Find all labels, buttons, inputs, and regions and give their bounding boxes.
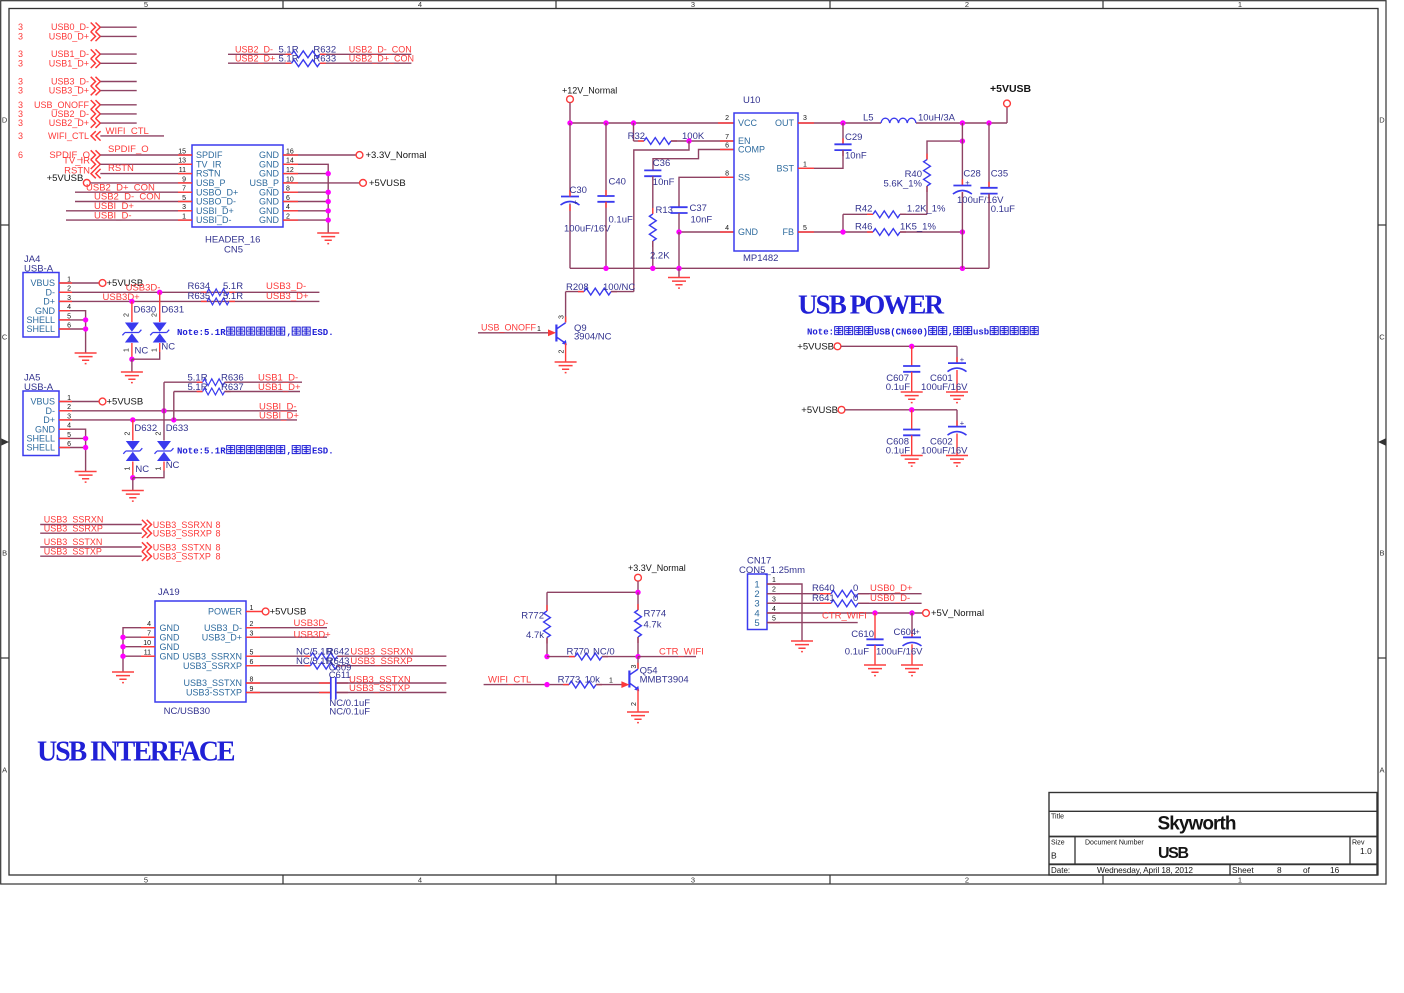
resistor R40 5.6K_1% [883, 138, 965, 214]
svg-text:USB(CN600): USB(CN600) [874, 328, 928, 338]
svg-text:4: 4 [725, 225, 729, 232]
ground below C607 [901, 392, 923, 403]
svg-text:USB3_SSTXN: USB3_SSTXN [183, 678, 242, 688]
ground below C602 [946, 456, 968, 467]
svg-text:8: 8 [725, 170, 729, 177]
svg-text:USB: USB [1158, 845, 1189, 862]
svg-text:Note:: Note: [807, 328, 834, 338]
svg-text:USB1_D+: USB1_D+ [49, 58, 89, 68]
svg-text:C: C [2, 333, 8, 342]
svg-text:1.0: 1.0 [1360, 846, 1372, 856]
svg-text:+: + [960, 418, 965, 427]
svg-text:POWER: POWER [208, 607, 243, 617]
wire CN5 GND pins to ground [283, 164, 331, 233]
svg-text:8: 8 [216, 552, 221, 562]
svg-text:,: , [948, 328, 953, 338]
ground below C608 [901, 456, 923, 467]
svg-text:CTR_WIFI: CTR_WIFI [822, 610, 867, 621]
svg-text:VCC: VCC [738, 118, 758, 128]
resistor R13 2.2K [649, 176, 673, 268]
off-page connector USB3_SSRXN (sheet 8) [40, 515, 220, 530]
svg-text:7: 7 [725, 134, 729, 141]
off-page connector TV_IR, wire to CN5 pin 13 [63, 156, 192, 169]
svg-text:,: , [287, 328, 292, 338]
transistor Q9 3904/NC [556, 292, 611, 362]
svg-text:Title: Title [1051, 814, 1064, 821]
svg-text:+5VUSB: +5VUSB [270, 607, 307, 618]
svg-text:2: 2 [631, 702, 638, 706]
resistor R634 5.1R [188, 281, 307, 296]
power +5VUSB to CN5 pin 9 [47, 173, 192, 186]
svg-text:NC/0: NC/0 [593, 646, 615, 657]
svg-text:USB3_SSRXN: USB3_SSRXN [182, 651, 242, 661]
ground below Q9 [555, 362, 577, 373]
svg-text:USB3_SSRXP: USB3_SSRXP [153, 529, 212, 539]
wire U10 OUT pin 3 to +5VUSB via L5 [798, 83, 1032, 126]
svg-text:C: C [1379, 333, 1385, 342]
svg-text:MP1482: MP1482 [743, 253, 778, 264]
svg-text:USB0_D+: USB0_D+ [49, 31, 89, 41]
svg-text:B: B [2, 549, 7, 558]
svg-text:Document Number: Document Number [1085, 839, 1144, 846]
capacitor C601 100uF/16V [921, 346, 968, 393]
svg-text:10uH/3A: 10uH/3A [918, 113, 956, 124]
ground below D630/D631 [121, 359, 143, 382]
resistor R636 5.1R [164, 373, 302, 386]
capacitor C37 10nF [670, 203, 712, 232]
off-page connector SPDIF_O (sheet 6), wire to CN5 pin 15 [18, 144, 192, 161]
svg-text:R32: R32 [628, 131, 645, 142]
svg-text:R774: R774 [644, 608, 667, 619]
net USB2_D+_CON to CN5 pin 7 [75, 182, 192, 193]
svg-text:4.7k: 4.7k [644, 620, 662, 631]
svg-text:C610: C610 [851, 629, 874, 640]
off-page connector USB1_D+ (sheet 3) [18, 58, 137, 68]
ground below C610 [864, 665, 886, 676]
ESD diode D631 [132, 292, 184, 359]
wire JA4 D- (net USB3D-) [59, 282, 319, 295]
net USB_ONOFF to Q9 base [478, 323, 556, 337]
svg-text:USB3_SSRXP: USB3_SSRXP [44, 523, 103, 533]
note: 5.1R resistor close to terminal, reduce ESD (JA5) [177, 446, 334, 457]
svg-text:GND: GND [160, 623, 181, 633]
svg-text:+5VUSB: +5VUSB [107, 396, 144, 407]
svg-text:R633: R633 [313, 54, 336, 65]
svg-text:NC/USB30: NC/USB30 [164, 706, 210, 717]
svg-text:D632: D632 [134, 423, 157, 434]
svg-text:USB3_SSRXP: USB3_SSRXP [350, 656, 412, 667]
ESD diode D632 [123, 423, 157, 480]
svg-text:R13: R13 [656, 205, 673, 216]
wire JA19 GND pins to ground [120, 628, 155, 672]
svg-text:NC/0.1uF: NC/0.1uF [329, 706, 370, 717]
svg-text:+5VUSB: +5VUSB [47, 173, 84, 184]
svg-text:5: 5 [803, 225, 807, 232]
svg-text:2: 2 [124, 313, 131, 317]
svg-text:10nF: 10nF [845, 150, 867, 161]
svg-text:D631: D631 [161, 305, 184, 316]
wire JA4 D+ (net USB3D+) [59, 292, 319, 304]
svg-text:4: 4 [418, 0, 422, 9]
wire U10 COMP pin 6 to C36 [653, 150, 734, 171]
svg-text:NC: NC [135, 464, 149, 475]
svg-text:3: 3 [18, 86, 23, 96]
svg-text:5.1R: 5.1R [279, 54, 299, 65]
svg-text:3904/NC: 3904/NC [574, 332, 612, 343]
svg-text:1: 1 [803, 161, 807, 168]
net USB2_D-_CON to CN5 pin 5 [75, 192, 192, 203]
svg-text:USB3_D+: USB3_D+ [202, 632, 242, 642]
svg-text:USB3_D-: USB3_D- [204, 623, 242, 633]
svg-text:R637: R637 [221, 382, 244, 393]
svg-text:MMBT3904: MMBT3904 [640, 675, 689, 686]
off-page connector USB1_D- (sheet 3) [18, 49, 137, 59]
off-page connector USB2_D+ (sheet 3) [18, 118, 137, 128]
title block [1049, 793, 1377, 876]
svg-text:2: 2 [124, 431, 131, 435]
ground below Q54 [627, 712, 649, 723]
off-page connector USB0_D- (sheet 3) [18, 22, 137, 32]
off-page connector WIFI_CTL (sheet 3) [18, 126, 164, 141]
off-page connector RSTN, wire to CN5 pin 11 [64, 163, 192, 178]
svg-text:1K5_1%: 1K5_1% [900, 221, 936, 232]
svg-text:100K: 100K [682, 131, 705, 142]
svg-text:Sheet: Sheet [1232, 865, 1254, 875]
capacitor C607 0.1uF [886, 346, 921, 393]
svg-text:3: 3 [691, 876, 695, 885]
off-page connector USB3_SSTXP (sheet 8) [40, 546, 220, 561]
svg-text:C30: C30 [570, 185, 587, 196]
wire JA5 GND/SHELL to ground [59, 429, 88, 471]
svg-text:4: 4 [772, 606, 776, 613]
svg-text:+3.3V_Normal: +3.3V_Normal [366, 150, 427, 161]
svg-text:3: 3 [18, 31, 23, 41]
capacitor C36 10nF [644, 158, 674, 188]
svg-text:Skyworth: Skyworth [1158, 814, 1237, 835]
svg-text:A: A [2, 766, 7, 775]
wire JA4 pin1 VBUS to +5VUSB [59, 278, 143, 289]
svg-text:2: 2 [559, 349, 566, 353]
wire EN node to R208 [634, 141, 689, 292]
svg-text:C40: C40 [609, 176, 626, 187]
capacitor C28 100uF/16V [953, 123, 1004, 268]
resistor R42 1.2K_1% [843, 204, 946, 232]
svg-text:SHELL: SHELL [26, 443, 55, 453]
wire U10 GND pin 4 [676, 229, 734, 268]
svg-text:3: 3 [631, 664, 638, 668]
wire JA4 GND/SHELL to ground [59, 311, 88, 353]
wire JA5 pin1 VBUS to +5VUSB [59, 396, 143, 407]
capacitor C35 0.1uF [980, 123, 1015, 268]
wire JA19 pin1 POWER to +5VUSB [246, 607, 306, 618]
resistor R208 100/NC [566, 282, 636, 295]
svg-text:USB3_D+: USB3_D+ [49, 86, 89, 96]
svg-text:1: 1 [609, 677, 613, 684]
svg-text:SPDIF_O: SPDIF_O [108, 144, 149, 155]
svg-text:Note:5.1R: Note:5.1R [177, 447, 226, 457]
resistor R633 5.1R [228, 54, 414, 67]
svg-text:USB3-SSTXP: USB3-SSTXP [186, 688, 242, 698]
svg-text:of: of [1303, 865, 1311, 875]
svg-text:R208: R208 [566, 282, 589, 293]
svg-text:B: B [1051, 851, 1057, 861]
svg-text:+: + [573, 198, 578, 207]
capacitor C611 NC/0.1uF [246, 670, 446, 717]
svg-text:USB3_SSTXP: USB3_SSTXP [153, 552, 211, 562]
svg-text:1: 1 [772, 577, 776, 584]
power +3.3V_Normal [628, 563, 686, 592]
svg-text:USB0_D-: USB0_D- [870, 593, 910, 604]
svg-text:0.1uF: 0.1uF [845, 647, 869, 658]
ground below CN17 pin1 [791, 641, 813, 652]
svg-text:USB2_D+: USB2_D+ [235, 54, 275, 64]
connector CN5 HEADER_16 [178, 145, 294, 256]
svg-text:2: 2 [965, 876, 969, 885]
svg-text:10k: 10k [585, 674, 601, 685]
svg-text:1: 1 [1238, 876, 1242, 885]
inductor L5 10uH/3A [863, 113, 956, 124]
off-page connector USB_ONOFF (sheet 3) [18, 100, 137, 110]
svg-text:C29: C29 [845, 132, 862, 143]
svg-text:SS: SS [738, 172, 750, 182]
svg-text:3: 3 [18, 58, 23, 68]
svg-text:+5V_Normal: +5V_Normal [931, 608, 984, 619]
resistor R640 0 (net USB0_D+) [767, 583, 922, 597]
svg-text:USB3D+: USB3D+ [294, 629, 332, 640]
svg-text:5: 5 [754, 618, 759, 629]
svg-text:C28: C28 [963, 168, 980, 179]
svg-text:5.1R: 5.1R [188, 382, 208, 393]
svg-text:2: 2 [725, 115, 729, 122]
svg-text:A: A [1379, 766, 1384, 775]
svg-text:16: 16 [1330, 865, 1340, 875]
svg-text:CN5: CN5 [224, 245, 243, 256]
capacitor C30 100uF/16V [561, 123, 612, 268]
ground below C604 [901, 665, 923, 676]
ESD diode D630 [122, 301, 156, 362]
svg-text:Date:: Date: [1051, 866, 1070, 875]
svg-text:+5VUSB: +5VUSB [990, 83, 1032, 95]
ground below C601 [946, 392, 968, 403]
resistor R46 1K5_1% FB divider [798, 221, 965, 235]
svg-text:3: 3 [18, 118, 23, 128]
ground below D632/D633 [122, 478, 144, 501]
note: 5.1R resistor close to terminal, reduce ESD (JA4) [177, 327, 334, 338]
svg-text:+: + [965, 178, 970, 187]
svg-text:5: 5 [144, 876, 148, 885]
off-page connector USB2_D- (sheet 3) [18, 109, 137, 119]
resistor R637 5.1R [174, 382, 301, 395]
svg-text:2: 2 [151, 313, 158, 317]
svg-text:USBI_D+: USBI_D+ [259, 411, 299, 422]
svg-text:5: 5 [772, 616, 776, 623]
power +12V_Normal [562, 86, 617, 123]
svg-text:1: 1 [151, 348, 158, 352]
svg-text:+: + [960, 355, 965, 364]
svg-text:2: 2 [965, 0, 969, 9]
svg-text:FB: FB [782, 227, 794, 237]
svg-text:BST: BST [776, 163, 794, 173]
connector JA4 USB-A [23, 254, 71, 337]
svg-text:6: 6 [18, 150, 23, 160]
svg-text:1: 1 [537, 326, 541, 333]
connector JA5 USB-A [23, 373, 71, 456]
svg-text:1: 1 [124, 348, 131, 352]
svg-text:10nF: 10nF [653, 177, 675, 188]
capacitor C602 100uF/16V [921, 410, 968, 457]
power +5VUSB rail 1 [797, 342, 957, 353]
transistor Q54 MMBT3904 [629, 657, 688, 712]
resistor R770 NC/0 [544, 646, 640, 660]
svg-text:USBI_D-: USBI_D- [196, 215, 232, 225]
svg-text:Wednesday, April 18, 2012: Wednesday, April 18, 2012 [1097, 865, 1193, 875]
wire JA5 D+ (net USBI_D+) [59, 392, 299, 441]
svg-text:USB_ONOFF: USB_ONOFF [481, 323, 537, 333]
wire CN5 pin 10 USB_P to +5VUSB [283, 178, 406, 189]
wire CN17 pin4 to +5V_Normal [767, 608, 984, 619]
resistor R635 5.1R [188, 291, 309, 305]
svg-text:USB3D-: USB3D- [294, 618, 329, 629]
svg-text:USB1_D+: USB1_D+ [258, 382, 301, 393]
svg-text:GND: GND [160, 642, 181, 652]
svg-text:RSTN: RSTN [108, 163, 134, 174]
capacitor C609 NC/0.1uF [246, 662, 446, 709]
svg-text:USB3_D+: USB3_D+ [266, 291, 309, 302]
svg-text:100/NC: 100/NC [603, 282, 635, 293]
wire 3.3V top rail [547, 590, 641, 595]
svg-text:6: 6 [725, 143, 729, 150]
ground below JA5 shell [75, 472, 97, 483]
svg-text:1: 1 [124, 466, 131, 470]
svg-text:B: B [1379, 549, 1384, 558]
svg-text:D: D [2, 116, 8, 125]
svg-text:C35: C35 [991, 168, 1008, 179]
svg-text:3: 3 [559, 315, 566, 319]
svg-text:C604: C604 [894, 627, 917, 638]
svg-text:R42: R42 [855, 204, 872, 215]
svg-text:5.1R: 5.1R [223, 291, 243, 302]
connector JA19 NC/USB30 [143, 587, 253, 717]
wire JA5 D- (net USBI_D-) [59, 382, 297, 440]
capacitor C608 0.1uF [886, 410, 921, 457]
svg-text:C611: C611 [329, 670, 351, 681]
svg-text:,: , [287, 447, 292, 457]
capacitor C29 10nF [798, 123, 867, 168]
svg-text:+12V_Normal: +12V_Normal [562, 86, 617, 96]
svg-text:5: 5 [144, 0, 148, 9]
svg-text:GND: GND [160, 632, 181, 642]
svg-text:U10: U10 [743, 95, 760, 106]
wire bottom ground rail [570, 266, 989, 271]
svg-text:+5VUSB: +5VUSB [801, 405, 838, 416]
svg-text:4.7k: 4.7k [526, 630, 544, 641]
resistor R641 0 (net USB0_D-) [767, 593, 922, 607]
svg-text:JA19: JA19 [158, 587, 180, 598]
svg-text:D633: D633 [166, 423, 189, 434]
svg-text:ESD.: ESD. [312, 447, 334, 457]
svg-text:GND: GND [160, 651, 181, 661]
svg-text:NC: NC [166, 460, 180, 471]
power +5VUSB rail 2 [801, 405, 957, 416]
off-page connector USB3_SSTXN (sheet 8) [40, 537, 220, 552]
svg-text:1: 1 [1238, 0, 1242, 9]
resistor R772 4.7k [521, 592, 550, 656]
svg-text:GND: GND [738, 227, 759, 237]
resistor R632 5.1R [228, 45, 412, 58]
net WIFI_CTL to Q54 base via R773 [484, 674, 630, 688]
svg-text:Note:5.1R: Note:5.1R [177, 328, 226, 338]
svg-text:10nF: 10nF [691, 214, 713, 225]
svg-text:USB POWER: USB POWER [798, 289, 945, 319]
svg-text:R46: R46 [855, 221, 872, 232]
wire CN17 pin1 to ground [767, 584, 802, 641]
svg-text:USB INTERFACE: USB INTERFACE [37, 737, 236, 768]
svg-text:usb: usb [973, 328, 989, 338]
svg-text:C36: C36 [653, 158, 670, 169]
svg-text:8: 8 [216, 529, 221, 539]
svg-text:1: 1 [156, 466, 163, 470]
svg-text:100uF/16V: 100uF/16V [876, 647, 923, 658]
svg-text:R773: R773 [558, 674, 581, 685]
wire JA19 pin2 net USB3D- [246, 618, 328, 629]
svg-text:R772: R772 [521, 610, 544, 621]
svg-text:2: 2 [156, 431, 163, 435]
op-amp/regulator U10 MP1482 [725, 95, 807, 264]
svg-text:L5: L5 [863, 113, 874, 124]
ground below JA4 shell [75, 353, 97, 364]
svg-text:3: 3 [691, 0, 695, 9]
svg-text:Size: Size [1051, 839, 1065, 846]
svg-text:USB2_D+: USB2_D+ [49, 118, 89, 128]
svg-text:SHELL: SHELL [26, 324, 55, 334]
ground below C37/GND rail [668, 268, 690, 288]
svg-text:R641: R641 [812, 593, 835, 604]
svg-text:COMP: COMP [738, 145, 765, 155]
svg-text:NC: NC [135, 346, 149, 357]
svg-text:8: 8 [1277, 865, 1282, 875]
capacitor C40 0.1uF [597, 123, 633, 268]
svg-text:2: 2 [772, 587, 776, 594]
svg-text:4: 4 [418, 876, 422, 885]
svg-text:WIFI_CTL: WIFI_CTL [48, 131, 89, 141]
capacitor C604 100uF/16V [876, 613, 923, 665]
resistor R643 NC/5.1R [246, 656, 446, 669]
ground left of JA19 [112, 672, 134, 683]
svg-text:+3.3V_Normal: +3.3V_Normal [628, 563, 686, 573]
net USBI_D+ to CN5 pin 3 [66, 201, 192, 212]
wire CN17 pin5 net CTR_WIFI [767, 610, 867, 622]
ground below CN5 [317, 233, 339, 244]
off-page connector USB3_D- (sheet 3) [18, 77, 137, 87]
resistor R32 100K [628, 123, 734, 144]
wire CN5 pin 16 to +3.3V_Normal [283, 150, 427, 161]
svg-text:+5VUSB: +5VUSB [369, 178, 406, 189]
resistor R774 4.7k [635, 592, 667, 656]
net CTR_WIFI [638, 646, 704, 657]
off-page connector USB3_SSRXP (sheet 8) [40, 523, 220, 538]
off-page connector USB0_D+ (sheet 3) [18, 31, 137, 41]
svg-text:100uF/16V: 100uF/16V [564, 223, 611, 234]
svg-text:USB3_SSTXP: USB3_SSTXP [44, 546, 102, 556]
svg-text:5.6K_1%: 5.6K_1% [883, 179, 922, 190]
capacitor C610 0.1uF [845, 613, 884, 665]
svg-text:1.2K_1%: 1.2K_1% [907, 204, 946, 215]
svg-text:C37: C37 [690, 203, 707, 214]
svg-text:OUT: OUT [775, 118, 795, 128]
svg-text:3: 3 [803, 115, 807, 122]
svg-text:ESD.: ESD. [312, 328, 334, 338]
note: caps close to USB(CN600) terminal for stable usb r/w [807, 327, 1038, 338]
